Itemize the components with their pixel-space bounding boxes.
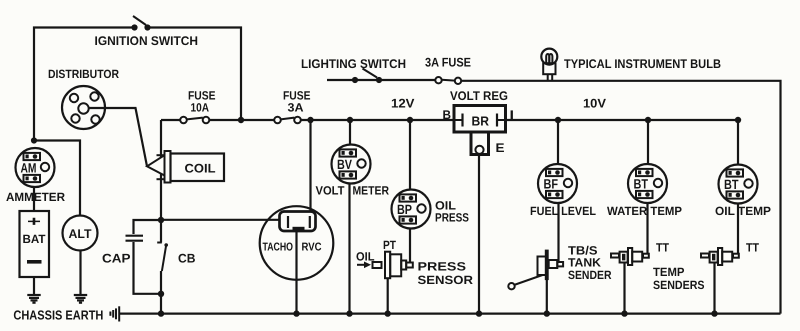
node: sensor earth — [385, 310, 391, 316]
water temp gauge BT — [628, 164, 667, 203]
svg-text:AMMETER: AMMETER — [6, 190, 65, 204]
wire: junction to alternator — [34, 141, 80, 216]
wire: fuel gauge to tank sender — [557, 203, 559, 263]
svg-text:TT: TT — [746, 241, 760, 255]
svg-text:TYPICAL INSTRUMENT BULB: TYPICAL INSTRUMENT BULB — [564, 57, 721, 71]
svg-text:10V: 10V — [583, 97, 607, 111]
wire: oil press feed drop — [409, 120, 411, 190]
wire: bus fuse10A to fuse3A — [209, 119, 275, 121]
wire: bus fuse3A to volt reg — [301, 119, 455, 121]
svg-text:TT: TT — [656, 241, 670, 255]
svg-text:B: B — [443, 108, 452, 122]
svg-text:VOLT: VOLT — [316, 184, 346, 198]
node: volt meter feed — [347, 117, 353, 123]
label PRESS SENSOR — [418, 260, 474, 288]
coil connector tick top — [157, 154, 165, 156]
node: ammeter feed junction — [31, 137, 37, 143]
svg-text:BV: BV — [337, 157, 352, 172]
label VOLT METER — [316, 184, 390, 198]
tank sender unit — [508, 250, 563, 290]
wire: volt meter to earth bus — [348, 184, 350, 314]
label TB/S TANK SENDER — [568, 244, 612, 283]
wire: 10V bus — [506, 119, 739, 121]
node: water temp feed — [645, 117, 651, 123]
volt meter gauge BV — [332, 145, 371, 184]
fuse F2 3A — [274, 117, 301, 124]
svg-text:CB: CB — [178, 252, 196, 266]
wire: tacho to earth bus — [295, 231, 297, 314]
distributor body — [62, 86, 105, 129]
wire: capacitor to rejoin — [134, 242, 162, 294]
wire: junction to tacho connector — [161, 219, 288, 221]
wire: lighting feed — [327, 79, 435, 81]
wire: oil press gauge to sensor — [409, 229, 411, 264]
svg-text:12V: 12V — [391, 97, 415, 111]
wire: chassis earth bus — [120, 313, 781, 315]
label FUSE 3A — [283, 89, 311, 115]
wire: alternator to ground — [79, 251, 81, 295]
node: volt meter earth — [346, 310, 352, 316]
pressure sensor PT — [373, 252, 413, 279]
label OIL PRESS — [435, 199, 469, 225]
lighting switch — [352, 69, 382, 84]
node: oil press feed — [407, 117, 413, 123]
svg-text:ALT: ALT — [69, 227, 92, 241]
svg-text:SENDER: SENDER — [568, 268, 612, 282]
node: cb to earth bus — [158, 310, 164, 316]
svg-text:10A: 10A — [191, 101, 210, 115]
oil press gauge BP — [392, 190, 431, 229]
wire: ammeter to battery — [33, 187, 35, 211]
regulator E terminal — [471, 132, 489, 155]
svg-text:RVC: RVC — [302, 242, 322, 254]
wire: ignition switch to bus drop — [148, 28, 241, 121]
svg-text:PRESS: PRESS — [418, 260, 467, 274]
svg-text:COIL: COIL — [185, 162, 216, 176]
svg-text:BP: BP — [397, 202, 412, 217]
node: temp sender earth — [621, 310, 627, 316]
wire: junction to capacitor — [134, 220, 162, 234]
svg-text:BT: BT — [724, 177, 739, 192]
svg-text:TACHO: TACHO — [263, 242, 294, 254]
label OIL with arrow — [356, 250, 375, 269]
contact breaker CB switch — [157, 220, 168, 314]
svg-text:CAP: CAP — [102, 252, 131, 266]
label TEMP SENDERS — [653, 265, 705, 292]
wire: main 12V bus left segment — [161, 119, 181, 121]
chassis earth symbol — [110, 306, 119, 321]
svg-text:BAT: BAT — [23, 232, 47, 246]
wire: sensor to earth bus — [387, 278, 389, 313]
wire: tacho feed drop — [309, 120, 311, 216]
node: ignition drop joins bus — [238, 117, 244, 123]
ground below battery — [27, 295, 40, 303]
ammeter gauge AM — [16, 148, 55, 187]
wire: fuel gauge drop — [557, 120, 559, 165]
wire: top loop left segment — [34, 28, 133, 142]
wire: water temp drop — [647, 120, 649, 165]
svg-text:E: E — [496, 141, 505, 155]
node: oil temp sender earth — [711, 310, 717, 316]
svg-text:+: + — [27, 213, 41, 229]
wire: oil gauge to temp sender — [737, 204, 739, 255]
wire: regulator E to earth bus — [478, 154, 480, 314]
wire: water gauge to temp sender — [646, 203, 648, 254]
wire: battery to ground — [33, 277, 35, 295]
wire: oil temp sender to earth bus — [713, 263, 715, 314]
ignition switch — [131, 16, 150, 31]
node: E earth — [476, 310, 482, 316]
wire: coil feed drop — [160, 120, 162, 220]
wire: volt meter feed drop — [349, 120, 351, 145]
svg-text:FUEL LEVEL: FUEL LEVEL — [530, 204, 596, 218]
svg-text:METER: METER — [353, 184, 390, 198]
wire: temp sender to earth bus — [623, 263, 625, 314]
voltage regulator U2 — [454, 106, 506, 133]
instrument bulb — [541, 49, 557, 80]
node: coil/cap/cb junction — [158, 217, 164, 223]
node: oil temp feed (bus end) — [735, 117, 741, 123]
coil U1 box — [171, 154, 225, 182]
svg-text:DISTRIBUTOR: DISTRIBUTOR — [48, 67, 119, 81]
temp sender TT water — [611, 248, 649, 265]
wire: fuse to right drop — [461, 81, 781, 314]
label FUSE 10A — [188, 89, 216, 115]
fuse F1 10A — [180, 117, 209, 124]
svg-text:PT: PT — [383, 238, 397, 252]
svg-text:IGNITION SWITCH: IGNITION SWITCH — [95, 34, 199, 48]
battery BAT — [20, 211, 50, 277]
svg-text:CHASSIS EARTH: CHASSIS EARTH — [13, 308, 103, 323]
node: tacho feed — [307, 117, 313, 123]
coil connector tick bottom — [157, 178, 165, 180]
coil flange — [165, 151, 171, 183]
wire: oil temp drop — [737, 120, 739, 165]
svg-text:LIGHTING SWITCH: LIGHTING SWITCH — [301, 57, 406, 71]
coil cone — [147, 155, 165, 175]
svg-text:WATER TEMP: WATER TEMP — [607, 204, 682, 218]
svg-text:BT: BT — [634, 177, 649, 192]
node: cap rejoin — [158, 291, 164, 297]
wire: distributor to coil cone — [89, 108, 147, 166]
svg-text:SENDERS: SENDERS — [653, 278, 705, 292]
svg-text:3A FUSE: 3A FUSE — [425, 56, 471, 70]
svg-text:VOLT REG: VOLT REG — [450, 89, 508, 103]
node: tacho earth — [293, 310, 299, 316]
tacho RVC body — [260, 206, 334, 280]
ground below alternator — [74, 295, 87, 303]
svg-text:PRESS: PRESS — [435, 211, 469, 225]
node: fuel gauge feed — [555, 117, 561, 123]
svg-text:TEMP: TEMP — [653, 265, 685, 279]
oil temp gauge BT — [719, 165, 758, 204]
wire: tank sender to earth bus — [546, 280, 548, 314]
fuel level gauge BF — [538, 164, 577, 203]
svg-text:BF: BF — [544, 177, 559, 192]
temp sender TT oil — [701, 248, 739, 265]
svg-text:OIL TEMP: OIL TEMP — [715, 204, 771, 218]
svg-text:3A: 3A — [288, 101, 304, 115]
svg-text:AM: AM — [21, 161, 37, 176]
fuse F3 3A instrument — [435, 77, 461, 84]
alternator ALT — [63, 216, 98, 251]
capacitor CAP — [126, 236, 144, 241]
svg-text:SENSOR: SENSOR — [418, 273, 474, 287]
svg-text:BR: BR — [472, 114, 490, 129]
node: tank sender earth — [544, 310, 550, 316]
